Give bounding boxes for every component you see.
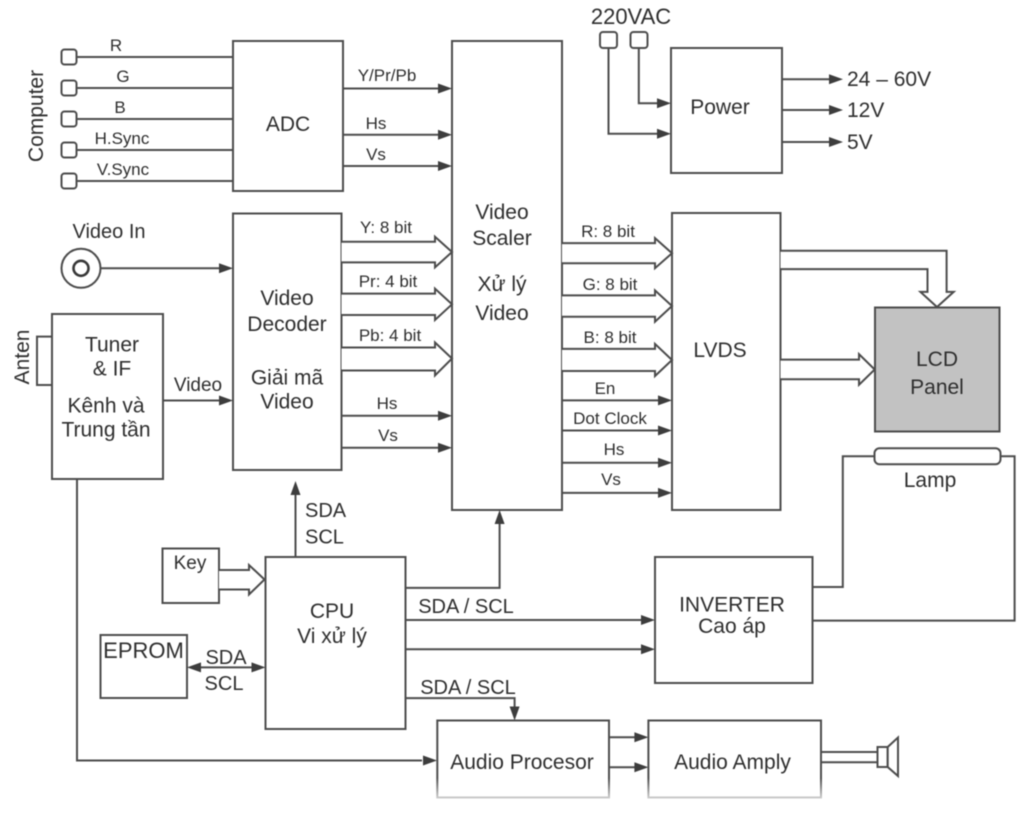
svg-text:CPU: CPU bbox=[310, 600, 354, 623]
svg-text:SCL: SCL bbox=[205, 673, 244, 695]
connector H.Sync bbox=[62, 129, 150, 158]
wire SDA/SCL CPU to scaler bbox=[406, 510, 514, 618]
wire G bbox=[77, 87, 234, 89]
bus B 8bit scaler to LVDS bbox=[562, 328, 672, 376]
svg-text:Tuner: Tuner bbox=[85, 334, 139, 357]
svg-text:Scaler: Scaler bbox=[472, 227, 532, 250]
wire procesor to amply lower bbox=[609, 762, 648, 772]
svg-text:SDA / SCL: SDA / SCL bbox=[418, 596, 514, 618]
bus R 8bit scaler to LVDS bbox=[562, 222, 672, 268]
svg-text:B: 8 bit: B: 8 bit bbox=[584, 328, 637, 347]
wire R bbox=[77, 56, 234, 58]
svg-text:EPROM: EPROM bbox=[103, 638, 184, 663]
svg-text:Dot Clock: Dot Clock bbox=[573, 409, 647, 428]
svg-text:Y: 8 bit: Y: 8 bit bbox=[360, 218, 412, 237]
connector 220VAC pin1 bbox=[600, 32, 617, 48]
wire SDA SCL EPROM to CPU bbox=[187, 647, 266, 695]
svg-text:Anten: Anten bbox=[11, 330, 34, 385]
svg-text:Video: Video bbox=[475, 302, 528, 325]
svg-text:Audio Amply: Audio Amply bbox=[674, 751, 791, 774]
block Key bbox=[163, 549, 220, 604]
svg-text:Lamp: Lamp bbox=[904, 469, 957, 492]
svg-text:ADC: ADC bbox=[266, 113, 310, 136]
svg-text:Decoder: Decoder bbox=[247, 313, 326, 336]
svg-text:Vs: Vs bbox=[366, 145, 386, 164]
block INVERTER bbox=[655, 557, 813, 683]
svg-text:Video: Video bbox=[475, 201, 528, 224]
bus LVDS to LCD top bbox=[781, 251, 954, 307]
svg-text:Vs: Vs bbox=[601, 470, 621, 489]
bus Pr 4bit decoder to scaler bbox=[342, 272, 453, 320]
svg-text:Video: Video bbox=[260, 391, 313, 414]
block EPROM bbox=[101, 635, 188, 698]
wire V.Sync bbox=[77, 180, 234, 182]
svg-text:5V: 5V bbox=[847, 131, 873, 154]
wire Hs ADC to scaler bbox=[343, 114, 452, 140]
bus Key to CPU bbox=[219, 565, 265, 595]
svg-text:Vs: Vs bbox=[378, 426, 398, 445]
svg-text:Computer: Computer bbox=[25, 70, 48, 162]
connector V.Sync bbox=[62, 160, 150, 189]
connector R bbox=[62, 36, 123, 65]
connector B bbox=[62, 98, 126, 127]
wire lamp right to inverter bbox=[813, 456, 1015, 620]
wire Hs scaler to LVDS bbox=[562, 440, 672, 468]
wire 5V output bbox=[782, 131, 873, 154]
svg-text:En: En bbox=[595, 379, 616, 398]
wire Vs ADC to scaler bbox=[343, 145, 452, 171]
block LVDS bbox=[672, 213, 781, 510]
svg-text:Video: Video bbox=[260, 287, 313, 310]
wire Hs decoder to scaler bbox=[342, 394, 453, 421]
connector 220VAC pin2 bbox=[631, 32, 648, 48]
svg-text:Vi xử lý: Vi xử lý bbox=[297, 625, 367, 648]
block LCD Panel bbox=[875, 308, 1000, 432]
svg-text:Power: Power bbox=[690, 96, 750, 119]
connector G bbox=[62, 67, 130, 96]
wire 12V output bbox=[782, 99, 884, 122]
svg-text:220VAC: 220VAC bbox=[591, 4, 671, 29]
wire Vs scaler to LVDS bbox=[562, 470, 672, 498]
svg-text:Key: Key bbox=[174, 553, 207, 574]
wire CPU to inverter lower bbox=[406, 644, 656, 654]
connector Video In jack bbox=[62, 249, 101, 288]
svg-text:R: 8 bit: R: 8 bit bbox=[581, 222, 635, 241]
block CPU bbox=[266, 557, 406, 729]
wire Video In to decoder bbox=[101, 263, 234, 273]
block ADC bbox=[233, 41, 343, 191]
wire Dot Clock scaler to LVDS bbox=[562, 409, 672, 436]
label Computer bbox=[25, 70, 48, 162]
wire H.Sync bbox=[77, 149, 234, 151]
wire procesor to amply upper bbox=[609, 732, 648, 742]
label 220VAC bbox=[591, 4, 671, 29]
svg-text:Pb: 4 bit: Pb: 4 bit bbox=[359, 326, 422, 345]
svg-text:Y/Pr/Pb: Y/Pr/Pb bbox=[358, 66, 417, 85]
connector antenna bbox=[37, 337, 52, 385]
wire Video tuner to decoder bbox=[163, 375, 233, 406]
wire En scaler to LVDS bbox=[562, 379, 672, 405]
svg-text:Video: Video bbox=[174, 375, 222, 396]
block Video Decoder bbox=[233, 214, 342, 471]
label Anten bbox=[11, 330, 34, 385]
svg-text:Hs: Hs bbox=[366, 114, 387, 133]
svg-text:INVERTER: INVERTER bbox=[679, 594, 785, 617]
wire SDA SCL CPU to decoder bbox=[291, 481, 347, 557]
svg-text:Pr: 4 bit: Pr: 4 bit bbox=[359, 272, 418, 291]
svg-text:SDA: SDA bbox=[305, 500, 347, 522]
svg-text:G: G bbox=[116, 67, 129, 86]
svg-text:24 – 60V: 24 – 60V bbox=[847, 68, 931, 91]
svg-text:R: R bbox=[110, 36, 122, 55]
svg-text:V.Sync: V.Sync bbox=[97, 160, 150, 179]
svg-text:Cao áp: Cao áp bbox=[698, 615, 766, 638]
speaker bbox=[821, 738, 898, 777]
wire 24-60V output bbox=[782, 68, 931, 91]
wire inverter to lamp left bbox=[813, 456, 875, 587]
svg-text:Panel: Panel bbox=[910, 376, 964, 399]
svg-text:SCL: SCL bbox=[305, 527, 344, 549]
block Power bbox=[671, 48, 782, 173]
svg-text:B: B bbox=[114, 98, 125, 117]
svg-text:SDA: SDA bbox=[205, 647, 247, 669]
svg-text:12V: 12V bbox=[847, 99, 884, 122]
svg-text:& IF: & IF bbox=[93, 358, 132, 381]
svg-text:Trung tần: Trung tần bbox=[61, 419, 150, 442]
bus Y 8bit decoder to scaler bbox=[342, 218, 453, 267]
svg-text:LVDS: LVDS bbox=[693, 339, 746, 362]
wire tuner to audio processor bbox=[77, 479, 437, 766]
wire CPU to inverter upper bbox=[406, 615, 656, 625]
wire 220VAC pin1 to power bbox=[609, 48, 672, 139]
svg-text:Audio Procesor: Audio Procesor bbox=[450, 751, 594, 774]
bus G 8bit scaler to LVDS bbox=[562, 275, 672, 322]
svg-text:G: 8 bit: G: 8 bit bbox=[583, 275, 638, 294]
wire Y/Pr/Pb ADC to scaler bbox=[343, 66, 452, 94]
svg-text:Giải mã: Giải mã bbox=[251, 367, 324, 390]
wire B bbox=[77, 118, 234, 120]
bus LVDS to LCD left bbox=[781, 354, 875, 385]
svg-text:Hs: Hs bbox=[377, 394, 398, 413]
svg-text:Hs: Hs bbox=[604, 440, 625, 459]
bus Pb 4bit decoder to scaler bbox=[342, 326, 453, 376]
svg-text:Xử lý: Xử lý bbox=[477, 273, 527, 296]
block Tuner & IF bbox=[52, 314, 163, 479]
block Video Scaler bbox=[452, 41, 562, 510]
svg-text:SDA / SCL: SDA / SCL bbox=[420, 677, 516, 699]
svg-text:Video In: Video In bbox=[72, 221, 145, 243]
wire Vs decoder to scaler bbox=[342, 426, 453, 453]
svg-text:Kênh và: Kênh và bbox=[67, 395, 144, 418]
wire SDA/SCL CPU to audio bbox=[406, 677, 520, 721]
svg-text:H.Sync: H.Sync bbox=[95, 129, 150, 148]
wire 220VAC pin2 to power bbox=[639, 48, 671, 108]
label Video In bbox=[72, 221, 145, 243]
block Audio Amply bbox=[648, 721, 821, 798]
svg-text:LCD: LCD bbox=[916, 348, 958, 371]
block Audio Procesor bbox=[437, 721, 609, 798]
lamp bbox=[875, 448, 1001, 492]
